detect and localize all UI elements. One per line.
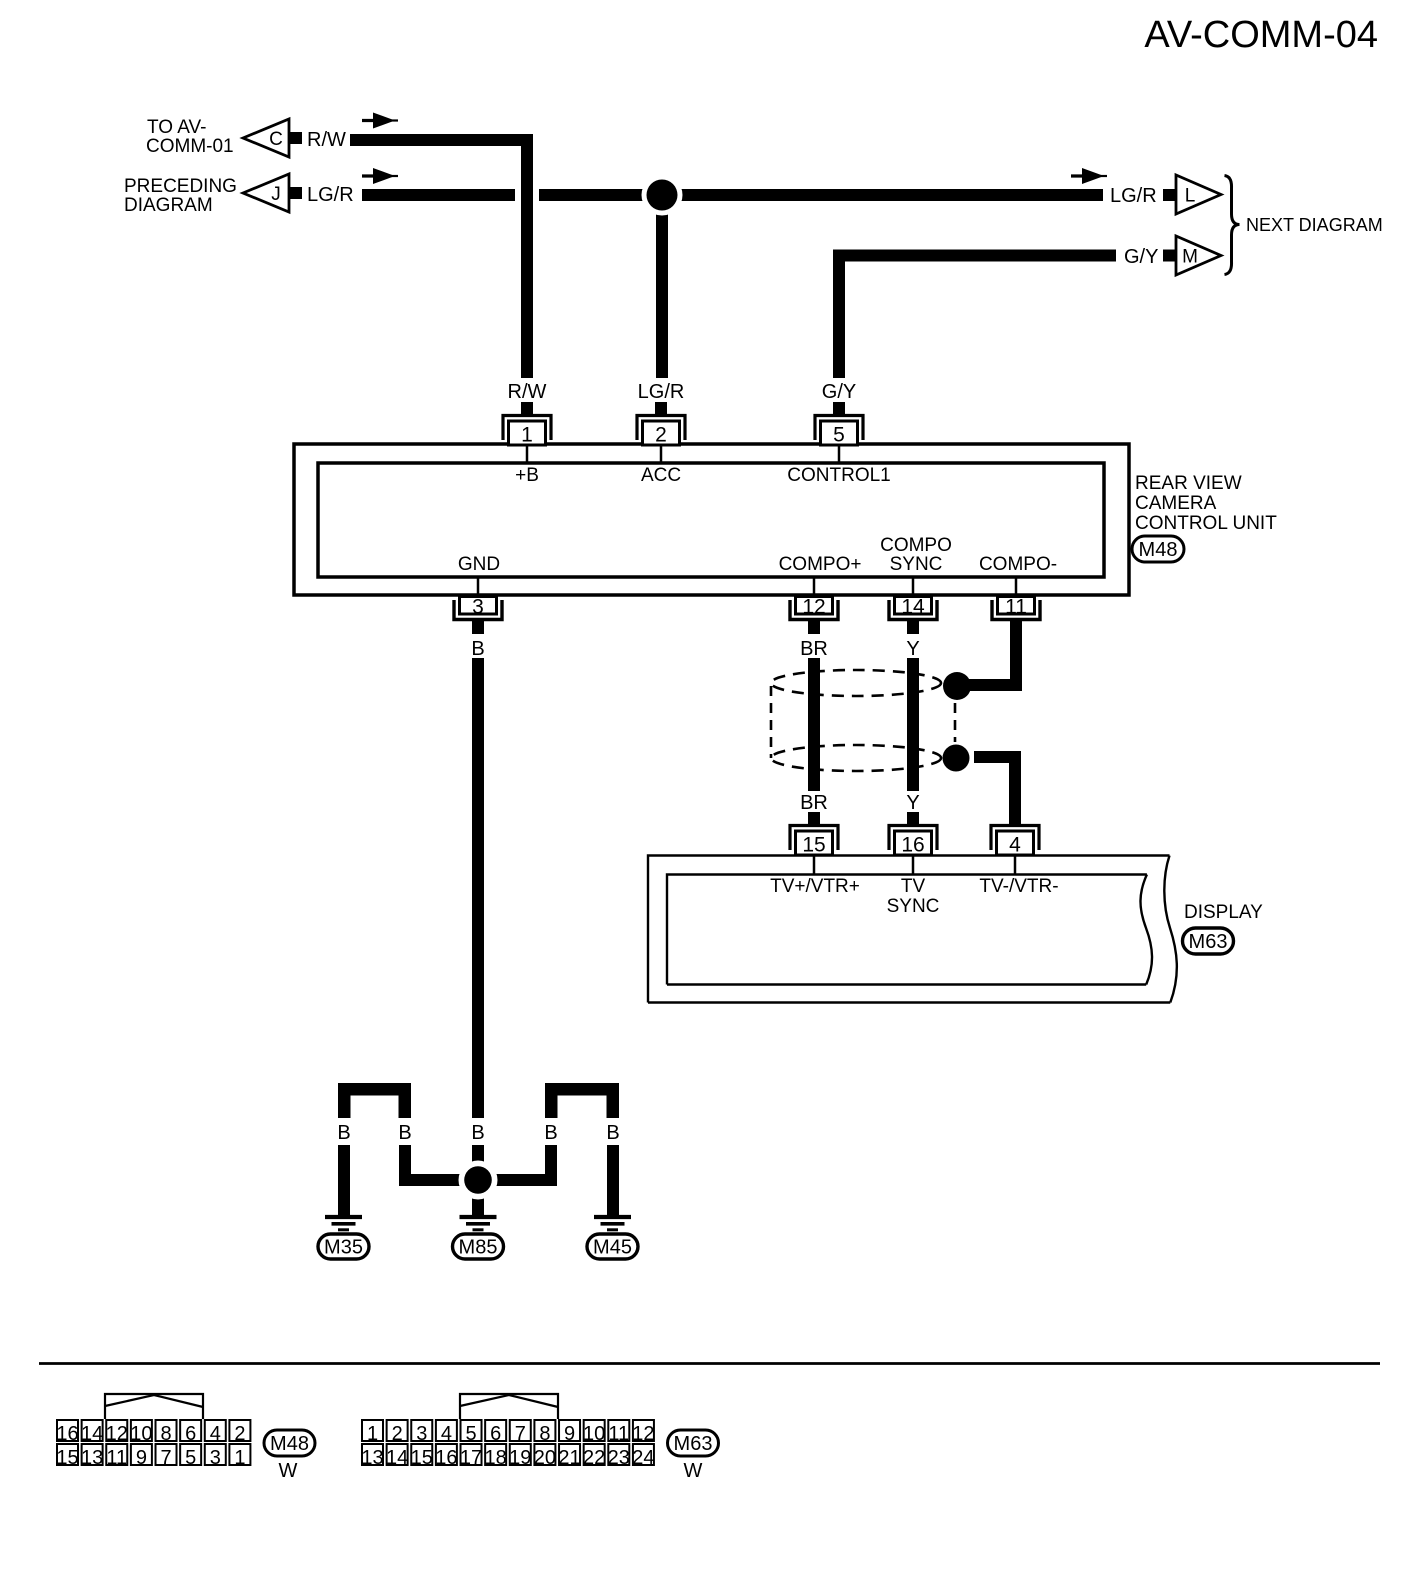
svg-text:12: 12 <box>802 596 825 619</box>
svg-text:M63: M63 <box>1189 931 1228 953</box>
svg-text:4: 4 <box>210 1423 221 1445</box>
svg-text:TV: TV <box>901 876 926 897</box>
svg-text:R/W: R/W <box>508 381 547 403</box>
svg-text:B: B <box>606 1122 619 1144</box>
svg-text:1: 1 <box>234 1447 245 1469</box>
svg-text:GND: GND <box>458 554 500 575</box>
svg-text:3: 3 <box>472 596 484 619</box>
svg-text:COMPO+: COMPO+ <box>779 554 862 575</box>
svg-text:23: 23 <box>608 1447 630 1469</box>
svg-text:M: M <box>1182 247 1198 268</box>
svg-text:BR: BR <box>800 638 828 660</box>
svg-text:CONTROL UNIT: CONTROL UNIT <box>1135 513 1277 534</box>
svg-text:BR: BR <box>800 792 828 814</box>
svg-text:M45: M45 <box>593 1237 632 1259</box>
svg-text:L: L <box>1185 186 1196 207</box>
svg-text:+B: +B <box>515 465 539 486</box>
svg-text:1: 1 <box>521 424 533 447</box>
svg-text:16: 16 <box>56 1423 78 1445</box>
svg-text:M85: M85 <box>459 1237 498 1259</box>
svg-text:SYNC: SYNC <box>887 896 940 917</box>
svg-text:11: 11 <box>1005 596 1027 619</box>
svg-text:B: B <box>337 1122 350 1144</box>
svg-text:J: J <box>271 184 281 205</box>
svg-text:17: 17 <box>460 1447 482 1469</box>
svg-text:18: 18 <box>485 1447 507 1469</box>
svg-text:6: 6 <box>185 1423 196 1445</box>
svg-text:B: B <box>398 1122 411 1144</box>
svg-text:10: 10 <box>583 1423 605 1445</box>
svg-text:16: 16 <box>435 1447 457 1469</box>
svg-text:G/Y: G/Y <box>822 381 856 403</box>
svg-text:15: 15 <box>56 1447 78 1469</box>
svg-text:20: 20 <box>534 1447 556 1469</box>
svg-text:NEXT DIAGRAM: NEXT DIAGRAM <box>1246 215 1383 235</box>
svg-text:LG/R: LG/R <box>307 184 354 206</box>
svg-text:REAR VIEW: REAR VIEW <box>1135 473 1242 494</box>
svg-text:DIAGRAM: DIAGRAM <box>124 195 213 216</box>
svg-text:6: 6 <box>490 1423 501 1445</box>
svg-text:15: 15 <box>802 834 825 857</box>
svg-text:2: 2 <box>392 1423 403 1445</box>
svg-text:9: 9 <box>136 1447 147 1469</box>
svg-text:SYNC: SYNC <box>890 554 943 575</box>
svg-text:TV-/VTR-: TV-/VTR- <box>979 876 1058 897</box>
svg-text:16: 16 <box>901 834 924 857</box>
svg-text:10: 10 <box>130 1423 152 1445</box>
svg-text:5: 5 <box>833 424 845 447</box>
svg-text:B: B <box>471 638 484 660</box>
svg-text:13: 13 <box>81 1447 103 1469</box>
svg-text:8: 8 <box>160 1423 171 1445</box>
svg-text:ACC: ACC <box>641 465 681 486</box>
svg-text:13: 13 <box>361 1447 383 1469</box>
svg-text:5: 5 <box>465 1423 476 1445</box>
svg-text:12: 12 <box>632 1423 654 1445</box>
svg-text:COMM-01: COMM-01 <box>146 136 234 157</box>
svg-text:Y: Y <box>906 792 919 814</box>
svg-text:2: 2 <box>655 424 667 447</box>
svg-text:PRECEDING: PRECEDING <box>124 176 237 197</box>
svg-text:12: 12 <box>106 1423 128 1445</box>
svg-text:G/Y: G/Y <box>1124 246 1158 268</box>
svg-text:11: 11 <box>608 1423 629 1445</box>
svg-text:21: 21 <box>558 1447 580 1469</box>
svg-text:5: 5 <box>185 1447 196 1469</box>
svg-text:15: 15 <box>411 1447 433 1469</box>
svg-text:CAMERA: CAMERA <box>1135 493 1217 514</box>
svg-text:COMPO-: COMPO- <box>979 554 1057 575</box>
svg-text:11: 11 <box>106 1447 127 1469</box>
svg-text:14: 14 <box>901 596 925 619</box>
svg-text:Y: Y <box>906 638 919 660</box>
svg-text:DISPLAY: DISPLAY <box>1184 902 1263 923</box>
svg-text:2: 2 <box>234 1423 245 1445</box>
svg-text:M63: M63 <box>674 1433 713 1455</box>
svg-text:7: 7 <box>160 1447 171 1469</box>
svg-text:14: 14 <box>81 1423 103 1445</box>
svg-text:4: 4 <box>1009 834 1021 857</box>
svg-text:W: W <box>279 1460 298 1482</box>
svg-text:W: W <box>684 1460 703 1482</box>
svg-text:TO AV-: TO AV- <box>147 117 207 138</box>
svg-text:AV-COMM-04: AV-COMM-04 <box>1144 14 1378 56</box>
svg-text:R/W: R/W <box>307 129 346 151</box>
svg-text:M48: M48 <box>1139 539 1178 561</box>
svg-text:COMPO: COMPO <box>880 535 952 556</box>
svg-text:14: 14 <box>386 1447 408 1469</box>
svg-text:M48: M48 <box>270 1433 309 1455</box>
svg-text:24: 24 <box>632 1447 654 1469</box>
svg-text:M35: M35 <box>324 1237 363 1259</box>
svg-text:1: 1 <box>367 1423 378 1445</box>
svg-text:C: C <box>269 129 283 150</box>
svg-text:3: 3 <box>210 1447 221 1469</box>
svg-text:7: 7 <box>515 1423 526 1445</box>
svg-text:9: 9 <box>564 1423 575 1445</box>
svg-text:LG/R: LG/R <box>1110 185 1157 207</box>
svg-text:CONTROL1: CONTROL1 <box>787 465 890 486</box>
svg-text:22: 22 <box>583 1447 605 1469</box>
svg-text:3: 3 <box>416 1423 427 1445</box>
svg-text:LG/R: LG/R <box>638 381 685 403</box>
svg-text:B: B <box>471 1122 484 1144</box>
svg-text:TV+/VTR+: TV+/VTR+ <box>770 876 860 897</box>
svg-text:8: 8 <box>539 1423 550 1445</box>
svg-text:B: B <box>544 1122 557 1144</box>
svg-text:19: 19 <box>509 1447 531 1469</box>
svg-text:4: 4 <box>441 1423 452 1445</box>
